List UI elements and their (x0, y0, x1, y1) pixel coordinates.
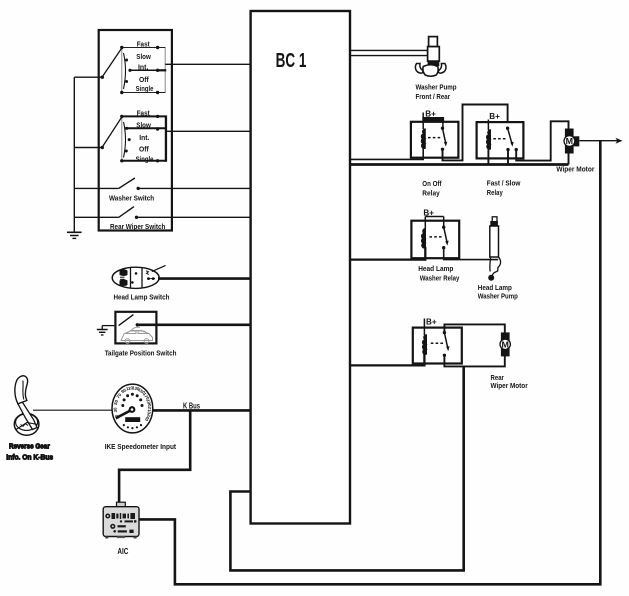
wire AIC output loop to wiper motor output (139, 141, 600, 585)
wiper motor M2 (556, 129, 594, 174)
svg-text:Single: Single (136, 154, 154, 163)
ground at tailgate switch (97, 326, 108, 335)
svg-text:M: M (566, 137, 574, 146)
wire rear relay top contact over to rear motor top (444, 324, 504, 333)
wire reverse gear to speedometer (33, 409, 113, 411)
wire on/off relay output up-over to fast/slow relay common (443, 105, 508, 161)
wire double line BC1 to washer pump (350, 49, 428, 51)
svg-text:Single: Single (136, 84, 154, 93)
wire BC1 to head lamp washer relay coil return (351, 247, 425, 260)
coil (421, 129, 425, 148)
AIC module (103, 502, 139, 556)
front wiper switch S1 (5-position) (101, 40, 167, 95)
wire rear relay bottom contact to rear motor bottom (444, 355, 504, 366)
svg-text:B+: B+ (489, 112, 500, 121)
wire tailgate switch to BC1 (137, 323, 250, 326)
wire fast/slow coil return to bus (487, 149, 489, 165)
svg-text:30: 30 (113, 407, 118, 413)
svg-text:Off: Off (139, 75, 149, 84)
svg-text:Fast: Fast (137, 108, 150, 117)
relay K1 on/off (411, 109, 459, 197)
wire fast/slow right contact up-over to wiper motor top (516, 121, 568, 160)
tailgate position switch S6 (102, 312, 177, 358)
wire head lamp washer relay output to pump (444, 248, 499, 260)
IKE speedometer input gauge (105, 384, 177, 451)
svg-text:Front / Rear: Front / Rear (416, 92, 451, 101)
relay K2 fast/slow (477, 112, 524, 197)
svg-text:Int.: Int. (139, 133, 149, 142)
wire wiper motor output with arrow (579, 140, 618, 142)
wire switch1 common to ground bus (74, 76, 102, 78)
svg-text:B+: B+ (425, 109, 436, 118)
reverse gear info icon (gear shift lever) (6, 376, 53, 462)
svg-text:Relay: Relay (487, 188, 504, 197)
wire head lamp switch to BC1 (158, 277, 251, 280)
relay K3 head lamp washer (411, 209, 460, 283)
wire BC1 to rear wiper relay coil return (351, 354, 424, 365)
svg-text:Head Lamp Switch: Head Lamp Switch (114, 293, 170, 302)
svg-text:Relay: Relay (422, 189, 440, 198)
svg-text:Washer Switch: Washer Switch (109, 193, 155, 202)
car icon inside tailgate switch (121, 327, 153, 343)
head lamp washer pump M3 (478, 217, 518, 300)
wire switch2 common to ground bus (74, 147, 102, 149)
svg-text:Fast: Fast (137, 40, 150, 49)
wire BC1 bottom-left loop to rear wiper motor (230, 367, 463, 570)
wire K-Bus branch down to AIC (119, 410, 190, 504)
svg-text:AIC: AIC (117, 547, 128, 556)
svg-text:Reverse Gear: Reverse Gear (9, 441, 50, 450)
wiper stalk switch assembly outer box (99, 30, 172, 231)
wire washer switch to BC1 (138, 187, 250, 189)
svg-text:M: M (502, 340, 510, 349)
rear wiper switch S2 (5-position) (101, 108, 166, 163)
svg-text:IKE Speedometer Input: IKE Speedometer Input (105, 442, 177, 451)
svg-text:B+: B+ (426, 318, 437, 327)
svg-text:Info. On K-Bus: Info. On K-Bus (6, 453, 53, 462)
ground bus vertical wire (73, 77, 75, 231)
svg-text:On Off: On Off (422, 179, 442, 188)
head lamp switch S5 (112, 265, 170, 301)
wire speedometer K-Bus to BC1 (153, 409, 251, 412)
wire wiper motor low side drop (568, 153, 570, 165)
svg-text:Washer Pump: Washer Pump (416, 82, 457, 91)
svg-text:K Bus: K Bus (183, 402, 200, 411)
svg-text:Washer Pump: Washer Pump (478, 291, 518, 300)
coil (422, 229, 426, 248)
wire BC1 to on/off relay coil return (351, 148, 423, 160)
svg-text:BC 1: BC 1 (276, 49, 307, 72)
rear wiper motor M4 (500, 332, 510, 356)
coil (487, 130, 491, 149)
svg-text:Washer Relay: Washer Relay (420, 273, 460, 282)
wire fast/slow left contact to bus (507, 150, 509, 165)
coil (423, 335, 427, 354)
svg-text:Off: Off (139, 144, 149, 153)
BC1 control module box U1 (251, 11, 350, 524)
svg-text:Slow: Slow (136, 52, 151, 61)
svg-text:Head Lamp: Head Lamp (418, 264, 454, 273)
svg-text:Rear Wiper Switch: Rear Wiper Switch (110, 222, 166, 231)
wire rear wiper switch to BC1 (137, 216, 251, 218)
washer switch S3 (74, 178, 154, 202)
wire switch2 output to BC1 (166, 130, 251, 132)
washer pump M1 front/rear (415, 37, 456, 101)
svg-text:Wiper Motor: Wiper Motor (491, 381, 528, 390)
svg-text:Tailgate Position Switch: Tailgate Position Switch (105, 349, 177, 358)
svg-text:Int.: Int. (138, 63, 148, 72)
wire main B+ bus BC1 to wiper motor low side (351, 163, 569, 166)
svg-text:Fast / Slow: Fast / Slow (487, 178, 521, 187)
svg-text:Slow: Slow (136, 121, 151, 130)
rear wiper on-off switch S4 (74, 207, 165, 231)
relay K4 rear wiper (413, 318, 528, 391)
wire switch1 output to BC1 (165, 63, 250, 65)
ground symbol (67, 232, 82, 238)
svg-text:Wiper Motor: Wiper Motor (556, 164, 594, 173)
